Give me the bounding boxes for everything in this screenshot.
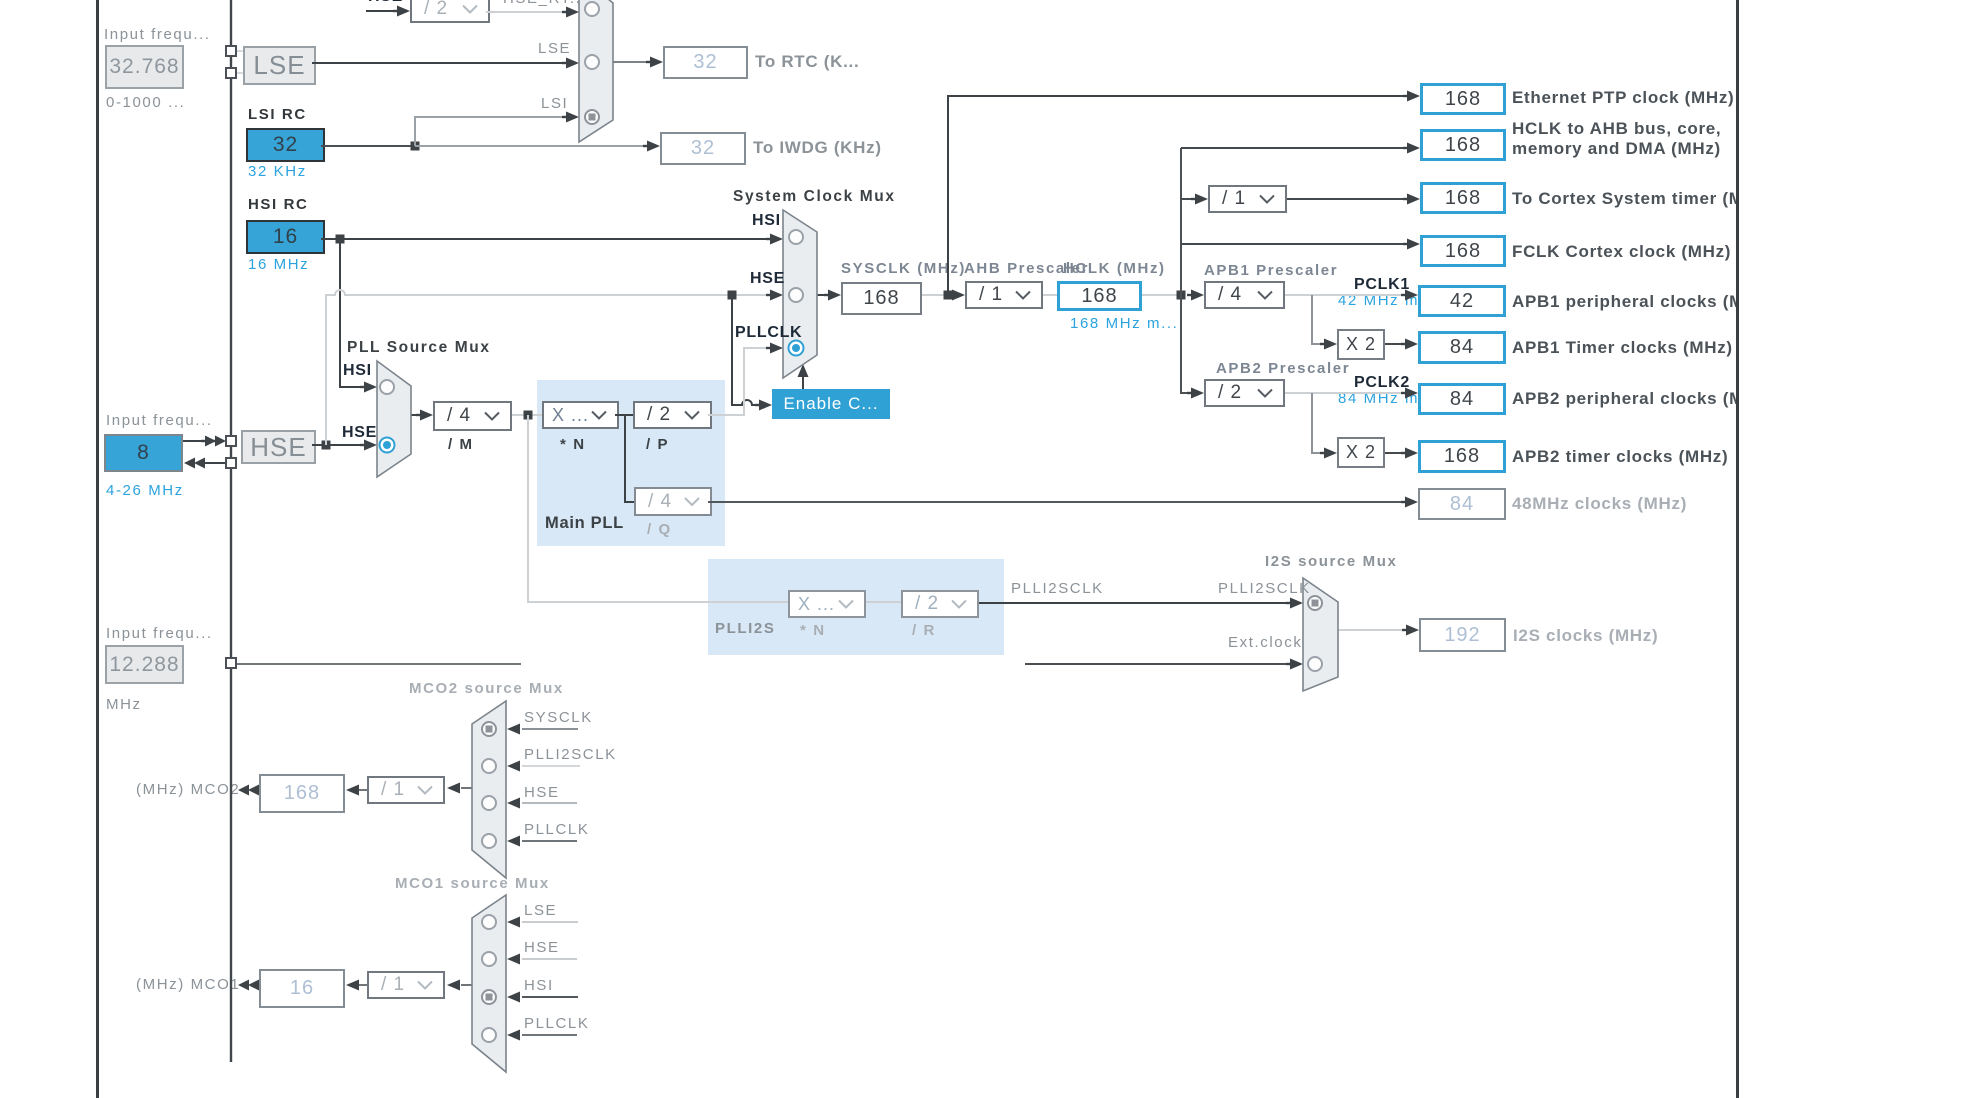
dropdown chevron of dropdown: PLL divider /M value /4 [485, 413, 499, 420]
wire: /2 divider to RTC mux HSE_RTC input [486, 11, 566, 13]
radio: MCO2 PLLCLK (off) [482, 834, 496, 848]
dropdown chevron of dropdown: PLL divider /Q value /4 [685, 498, 699, 505]
label: APB1 Timer clocks (MHz) [1512, 338, 1733, 358]
label: / P [646, 436, 669, 453]
label: PLLCLK port of MCO2 mux [524, 821, 589, 838]
label: I2S clocks (MHz) [1513, 626, 1658, 646]
wire: /Q output to 48MHz clocks [708, 501, 1406, 503]
pin connector: HSE upper [226, 436, 236, 446]
arrowhead: into To IWDG box [647, 141, 660, 152]
output box: FCLK Cortex clock 168 [1420, 235, 1506, 267]
arrowhead: into MCO2 value box [346, 785, 359, 796]
wire: *N to /P and /Q [615, 414, 633, 416]
label: (MHz) MCO2 pin [136, 781, 240, 798]
wire: /P output to PLLCLK [708, 348, 768, 415]
Main PLL block background region [537, 380, 725, 546]
dropdown: AHB prescaler /1 [965, 281, 1043, 309]
dropdown: MCO1 divider /1 [367, 971, 445, 999]
radio: MCO1 LSE (off) [482, 915, 496, 929]
source box: HSE oscillator [241, 430, 316, 464]
wire: LSI branch up [415, 117, 566, 146]
wire: HCLK to cortex divider [1181, 198, 1196, 200]
wire: SYSCLK stub into MCO2 mux [522, 728, 578, 730]
label: APB2 Prescaler [1216, 360, 1350, 377]
arrowhead: MCO2 pin inner [248, 785, 259, 796]
wire: LSE to RTC mux [312, 62, 566, 64]
wire: PLLI2S *N to /R [866, 601, 901, 603]
arrowhead: into /M divider [420, 410, 433, 421]
wire: HSI stub into MCO1 mux [522, 996, 578, 998]
label: * N (PLLI2S) [800, 622, 826, 639]
label: MCO1 source Mux title [395, 875, 550, 892]
input box: LSE input frequency 32.768 [105, 45, 184, 89]
panel border left [96, 0, 99, 1098]
wire: MCO2 value box to pin [255, 789, 259, 791]
label: HCLK (MHz) [1063, 260, 1166, 277]
wire: HCLK node vertical down to APB2 [1181, 295, 1192, 393]
wire: HSE to /2 divider [366, 10, 400, 12]
dropdown chevron of dropdown: HSE_RTC divider /2 [463, 6, 477, 13]
radio: LSE input (off) [585, 55, 599, 69]
label: HSE range 4-26 MHz [106, 482, 184, 499]
arrowhead: into I2S mux PLLI2SCLK radio [1290, 598, 1303, 609]
label: APB1 Prescaler [1204, 262, 1338, 279]
pin connector: I2S CKIN [226, 658, 236, 668]
wire: HCLK box to HCLK node [1142, 294, 1183, 296]
arrowhead: into MCO2 PLLCLK radio [507, 836, 520, 847]
wire: APB2 X2 output [1385, 452, 1406, 454]
dropdown: HSE_RTC divider /2 [410, 0, 490, 23]
output box: 48MHz clocks 84 [1418, 488, 1506, 520]
output box: MCO1 value 16 [259, 969, 345, 1008]
label: PLLCLK port of MCO1 mux [524, 1015, 589, 1032]
label: HSI 16 MHz [248, 256, 309, 273]
multiplier box: APB1 timer X2 [1337, 329, 1385, 360]
arrowhead: into APB2 prescaler [1191, 388, 1204, 399]
wire: MCO1 value box to pin [255, 984, 259, 986]
label: To IWDG (KHz) [753, 138, 882, 158]
wire: Enable CSS to system mux [802, 372, 804, 389]
label: * N [560, 436, 586, 453]
label: PLLCLK port of system mux [735, 324, 802, 342]
wire: APB2 prescaler output [1285, 392, 1406, 394]
label: HSE port of PLL mux [342, 424, 377, 442]
wire: MCO2 mux output [461, 787, 472, 789]
arrowhead: into PLL mux HSE radio [364, 440, 377, 451]
dropdown chevron of dropdown: PLLI2S divider /R value /2 [952, 601, 966, 608]
radio: system mux PLLCLK (selected) [789, 341, 804, 356]
arrowhead: MCO1 pin outer [238, 980, 249, 991]
radio: MCO1 HSE (off) [482, 952, 496, 966]
wire: HSE pin to box (lower) [205, 462, 226, 464]
label: I2S CKIN unit MHz [106, 696, 142, 713]
wire: HSI branch down to PLL mux [340, 239, 365, 387]
arrowhead: into HSE_RTC radio [566, 7, 579, 18]
label: PCLK1 max 42 MHz [1338, 292, 1419, 309]
wire: HSI RC output to system mux [321, 238, 770, 240]
input box: I2S CKIN input frequency 12.288 [105, 645, 184, 684]
dropdown chevron of dropdown: PLLI2S multiplier *N [839, 601, 853, 608]
wire: HSE branch up [326, 295, 330, 445]
wire: HCLK to FCLK cortex clock [1181, 243, 1408, 245]
arrowhead: into FCLK box [1407, 239, 1420, 250]
label: Ethernet PTP clock (MHz) [1512, 88, 1734, 108]
wire: SYSCLK to Ethernet PTP clock [948, 96, 1408, 295]
mux: I2S source Mux [1303, 578, 1338, 691]
wire: PLLI2SCLK stub into MCO2 mux [522, 765, 580, 767]
dropdown: APB1 prescaler /4 [1204, 281, 1285, 309]
wire: MCO1 divider to value box [358, 984, 367, 986]
radio: I2S mux Ext.clock (off) [1308, 657, 1322, 671]
wire: /M to *N [512, 414, 542, 416]
label: PLLI2SCLK net (after /R) [1011, 580, 1104, 597]
arrowhead: HSE pin out 2 [194, 458, 205, 469]
arrowhead: up into system mux [798, 364, 809, 377]
arrowhead: into /2 divider [397, 6, 410, 17]
label: LSE port of RTC mux [538, 40, 571, 57]
label: Ext.clock port of I2S mux [1228, 634, 1302, 651]
label: HSE port of MCO2 mux [524, 784, 560, 801]
dropdown chevron of dropdown: MCO2 divider /1 [418, 787, 432, 794]
label: (MHz) MCO1 pin [136, 976, 240, 993]
wire: RTC mux output to To RTC box [613, 61, 651, 63]
PLLI2S block background region [708, 559, 1004, 655]
wire: LSE pin stub upper [231, 50, 243, 52]
label: / M [448, 436, 474, 453]
value box: SYSCLK 168 [841, 282, 922, 315]
label: / R [912, 622, 936, 639]
label: / Q [647, 521, 672, 538]
output box: I2S clocks 192 [1419, 618, 1506, 652]
panel border right [1736, 0, 1739, 1098]
input box: HSE input frequency 8 [104, 434, 183, 472]
wire: AHB prescaler to HCLK box [1043, 294, 1057, 296]
label: Input frequency (I2S CKIN) [106, 625, 213, 642]
wire: LSI to IWDG [415, 145, 648, 147]
mux: PLL Source Mux [377, 361, 411, 477]
arrowhead: into To RTC box [650, 57, 663, 68]
label: PCLK2 [1354, 374, 1410, 392]
wire: Ext.clock segment to I2S mux [1025, 663, 1291, 665]
output box: MCO2 value 168 [259, 774, 345, 813]
dropdown: PLL divider /M value /4 [433, 401, 512, 431]
junction: SYSCLK node [944, 291, 953, 300]
arrowhead: MCO1 pin inner [248, 980, 259, 991]
arrowhead: into system mux HSI radio [770, 234, 783, 245]
arrowhead: into APB1 prescaler [1191, 290, 1204, 301]
wire: HCLK to AHB bus clock [1181, 147, 1408, 149]
label: MCO2 source Mux title [409, 680, 564, 697]
mux: RTC clock mux [579, 0, 613, 142]
label: I2S source Mux title [1265, 553, 1397, 570]
dropdown: APB2 prescaler /2 [1204, 379, 1285, 407]
arrowhead: into MCO1 LSE radio [507, 917, 520, 928]
arrowhead: into SYSCLK box [828, 290, 841, 301]
label: PLLI2SCLK port of MCO2 mux [524, 746, 617, 763]
junction: HCLK node [1177, 291, 1186, 300]
label: APB1 peripheral clocks (MHz) [1512, 292, 1744, 312]
arrowhead: into MCO1 HSE radio [507, 954, 520, 965]
dropdown chevron of dropdown: APB1 prescaler /4 [1258, 292, 1272, 299]
value box: HCLK 168 (editable) [1057, 281, 1142, 311]
arrowhead: into MCO2 HSE radio [507, 798, 520, 809]
label: LSE range 0-1000 [106, 94, 185, 111]
arrowhead: into APB1 timer box [1405, 339, 1418, 350]
dropdown chevron of dropdown: Cortex system timer divider /1 [1260, 196, 1274, 203]
radio: MCO2 PLLI2SCLK (off) [482, 759, 496, 773]
label: LSI 32 KHz [248, 163, 307, 180]
label: PCLK2 max 84 MHz [1338, 390, 1419, 407]
mux: System Clock Mux [783, 210, 817, 378]
wire: HCLK node vertical up [1180, 148, 1182, 295]
arrowhead: into MCO1 divider [447, 980, 460, 991]
wire: MCO2 divider to value box [358, 789, 367, 791]
label: LSI RC [248, 106, 307, 123]
source box: LSE oscillator [243, 46, 316, 85]
radio: MCO2 SYSCLK (selected) [482, 722, 496, 736]
wire: PCLK1 branch down [1312, 295, 1325, 344]
dropdown: PLL divider /P value /2 [633, 401, 712, 429]
dropdown: PLLI2S divider /R value /2 [901, 590, 979, 618]
label: To Cortex System timer (MHz) [1512, 189, 1744, 209]
dropdown: Cortex system timer divider /1 [1208, 185, 1287, 213]
junction: HSE node [322, 441, 331, 450]
multiplier box: APB2 timer X2 [1337, 437, 1385, 468]
arrowhead: into 48MHz box [1405, 497, 1418, 508]
dropdown chevron of dropdown: PLL multiplier *N value X [592, 412, 606, 419]
arrowhead: into cortex divider [1195, 194, 1208, 205]
output box: HCLK to AHB 168 [1420, 129, 1506, 161]
arrowhead: into I2S mux Ext.clock radio [1290, 659, 1303, 670]
wire: HSE stub into MCO1 mux [522, 958, 577, 960]
output box: APB1 peripheral clocks 42 [1418, 285, 1506, 317]
label: HSE port of system mux [750, 270, 785, 288]
label: Input frequency (HSE) [106, 412, 213, 429]
pin connector: LSE upper [226, 46, 236, 56]
wire: PLLCLK stub into MCO1 mux [522, 1034, 577, 1036]
label: PLL Source Mux title [347, 339, 491, 357]
wire: cortex divider to cortex timer box [1287, 198, 1408, 200]
arrowhead: HSE pin in 1 [205, 436, 216, 447]
radio: LSI input (selected) [585, 110, 599, 124]
label: PLLI2S title [715, 620, 775, 637]
wire: system mux output [817, 294, 830, 296]
label: HSE port (to RTC divider) [368, 0, 403, 6]
output box: Cortex system timer 168 [1420, 182, 1506, 214]
output box: APB2 peripheral clocks 84 [1418, 383, 1506, 415]
output box: APB1 timer clocks 84 [1418, 331, 1506, 364]
arrowhead: into LSI radio [566, 112, 579, 123]
wire: APB1 prescaler output [1285, 294, 1406, 296]
label: SYSCLK (MHz) [841, 260, 966, 277]
arrowhead: into MCO2 divider [447, 783, 460, 794]
label: HCLK to AHB bus core memory and DMA [1512, 119, 1721, 159]
label: HSI RC [248, 196, 308, 213]
button: Enable CSS [772, 389, 890, 419]
wire: N-P link down to /Q [625, 415, 634, 502]
dropdown: PLL divider /Q value /4 [634, 487, 712, 516]
dropdown chevron of dropdown: PLL divider /P value /2 [685, 412, 699, 419]
arrowhead: into APB2 X2 [1324, 448, 1337, 459]
wire: MCO1 mux output [461, 984, 472, 986]
wire: PLLI2SCLK to I2S mux [979, 602, 1291, 604]
label: System Clock Mux title [733, 188, 896, 206]
arrowhead: HSE pin out 1 [184, 458, 195, 469]
wire: HSE output to PLL mux [312, 444, 365, 446]
label: FCLK Cortex clock (MHz) [1512, 242, 1731, 262]
junction: LSI node [411, 142, 420, 151]
wire: PLLCLK stub into MCO2 mux [522, 840, 577, 842]
wire: HSE branch to system mux (hop over HSI line) [330, 290, 768, 295]
label: To RTC (KHz) [755, 52, 859, 72]
mux: MCO2 source Mux [472, 701, 506, 878]
arrowhead: into MCO2 SYSCLK radio [507, 724, 520, 735]
label: HSI port of system mux [752, 212, 781, 230]
radio: HSE_RTC input (off) [585, 2, 599, 16]
mux: MCO1 source Mux [472, 895, 506, 1072]
label: HSI port of MCO1 mux [524, 977, 554, 994]
dropdown: PLLI2S multiplier *N [788, 590, 866, 618]
arrowhead: into APB1 X2 [1324, 339, 1337, 350]
output box: To IWDG value 32 [660, 132, 746, 165]
pin connector: HSE lower [226, 458, 236, 468]
wire: PLL input node to PLLI2S *N [528, 415, 788, 602]
dropdown chevron of dropdown: AHB prescaler /1 [1016, 292, 1030, 299]
label: 48MHz clocks (MHz) [1512, 494, 1687, 514]
label: APB2 timer clocks (MHz) [1512, 447, 1728, 467]
wire: I2S CKIN segment (left) [235, 663, 521, 665]
radio: PLL mux HSI (off) [380, 380, 394, 394]
pin connector: LSE lower [226, 68, 236, 78]
wire: LSI RC output [321, 145, 415, 147]
label: LSE port of MCO1 mux [524, 902, 557, 919]
arrowhead: into LSE radio [566, 58, 579, 69]
label: HSE port of MCO1 mux [524, 939, 560, 956]
arrowhead: into Enable CSS button [759, 400, 772, 411]
arrowhead: MCO2 pin outer [238, 785, 249, 796]
wire: node to Enable CSS vertical [732, 295, 737, 405]
wire: HSE input to pin (upper) [183, 440, 206, 442]
wire: I2S mux output [1338, 629, 1407, 631]
wire: to Enable CSS (hop over PLLCLK line) [737, 400, 759, 405]
arrowhead: into APB1 peripheral box [1405, 290, 1418, 301]
source box: LSI RC 32 [246, 128, 325, 162]
label: LSI port of RTC mux [541, 95, 568, 112]
radio: system mux HSI (off) [789, 230, 803, 244]
label: HCLK max 168 MHz [1070, 315, 1178, 332]
arrowhead: into APB2 timer box [1405, 448, 1418, 459]
source box: HSI RC 16 [246, 220, 325, 254]
arrowhead: into MCO1 HSI radio [507, 992, 520, 1003]
output box: APB2 timer clocks 168 [1418, 440, 1506, 473]
arrowhead: into system mux HSE radio [770, 290, 783, 301]
wire: LSE stub into MCO1 mux [522, 921, 578, 923]
arrowhead: into MCO1 value box [346, 980, 359, 991]
output box: To RTC value 32 [663, 46, 748, 79]
radio: MCO1 HSI (selected) [482, 990, 496, 1004]
arrowhead: into cortex timer box [1407, 194, 1420, 205]
dropdown: MCO2 divider /1 [367, 776, 445, 804]
label: APB2 peripheral clocks (MHz) [1512, 389, 1744, 409]
radio: MCO1 PLLCLK (off) [482, 1028, 496, 1042]
arrowhead: into PLL mux HSI radio [364, 382, 377, 393]
wire: HSE stub into MCO2 mux [522, 802, 577, 804]
arrowhead: HSE pin in 2 [215, 436, 226, 447]
wire: PLL mux output to /M [411, 414, 423, 416]
radio: I2S mux PLLI2SCLK (selected) [1308, 596, 1322, 610]
arrowhead: into APB2 peripheral box [1405, 388, 1418, 399]
label: HSE_RTC net [503, 0, 587, 7]
radio: PLL mux HSE (selected) [380, 438, 395, 453]
dropdown chevron of dropdown: APB2 prescaler /2 [1258, 390, 1272, 397]
arrowhead: into system mux PLLCLK radio [770, 343, 783, 354]
junction: PLL input node [524, 411, 533, 420]
label: PLLI2SCLK port of I2S mux [1218, 580, 1311, 597]
label: PCLK1 [1354, 276, 1410, 294]
wire: APB1 X2 output [1385, 343, 1406, 345]
label: AHB Prescaler [964, 260, 1089, 277]
dropdown chevron of dropdown: MCO1 divider /1 [418, 982, 432, 989]
wire: SYSCLK box to AHB prescaler [922, 294, 950, 296]
arrowhead: into I2S clocks box [1406, 625, 1419, 636]
radio: system mux HSE (off) [789, 288, 803, 302]
label: SYSCLK port of MCO2 mux [524, 709, 593, 726]
arrowhead: into MCO1 PLLCLK radio [507, 1030, 520, 1041]
wire: PCLK2 branch down [1312, 393, 1325, 453]
wire: LSE pin stub lower [231, 72, 243, 74]
arrowhead: into MCO2 PLLI2SCLK radio [507, 761, 520, 772]
radio: MCO2 HSE (off) [482, 796, 496, 810]
chip boundary line [230, 0, 232, 1062]
output box: Ethernet PTP clock 168 [1420, 83, 1506, 115]
dropdown: PLL multiplier *N value X [542, 401, 619, 429]
arrowhead: into AHB prescaler [952, 290, 965, 301]
junction: HSE-PLLCLK node [728, 291, 737, 300]
arrowhead: into HCLK-AHB box [1407, 143, 1420, 154]
label: HSI port of PLL mux [343, 362, 372, 380]
label: Main PLL title [545, 514, 624, 533]
arrowhead: into Ethernet PTP box [1407, 91, 1420, 102]
junction: HSI node [336, 235, 345, 244]
label: Input frequency (LSE) [104, 26, 211, 43]
